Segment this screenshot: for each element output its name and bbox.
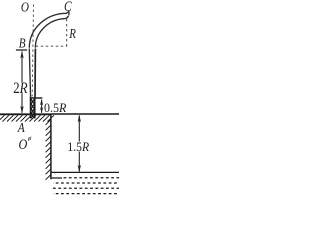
wire: dashed horizontal radius construction line	[36, 45, 67, 47]
table edge hatching	[46, 120, 51, 180]
dimension arrow 0.5R head down	[40, 107, 43, 113]
tube left (outer) wall: straight part	[29, 49, 30, 99]
dimension arrow 2R (shaft)	[21, 52, 23, 113]
svg-text:B: B	[19, 35, 26, 50]
ground / table top line	[0, 113, 52, 115]
dimension arrow 1.5R (shaft)	[78, 116, 80, 172]
svg-text:O: O	[21, 0, 29, 15]
svg-text:1.5R: 1.5R	[67, 140, 89, 154]
ground hatching	[0, 115, 54, 121]
water dashes row 2	[53, 182, 119, 184]
svg-text:2R: 2R	[13, 80, 28, 97]
water surface line	[51, 171, 119, 173]
tank inner ledge / first water row solid part	[51, 177, 62, 179]
label 1.5R	[67, 140, 89, 154]
plug crosshatch	[31, 99, 34, 118]
dimension arrow 1.5R head up	[78, 115, 81, 123]
dimension arrow 1.5R head down	[78, 165, 81, 173]
svg-text:C: C	[64, 0, 72, 15]
svg-text:A: A	[17, 120, 25, 135]
wire: dashed vertical radius construction line	[66, 19, 68, 46]
tube right (inner) wall: straight part	[34, 49, 36, 99]
tube bend inner wall arc	[35, 16, 68, 48]
water dashes row 4	[53, 193, 119, 195]
node B level tick	[16, 49, 27, 51]
svg-text:0.5R: 0.5R	[44, 101, 67, 115]
label 2R	[13, 80, 28, 97]
plug (hatched piston) left wall	[30, 98, 32, 118]
dimension arrow 0.5R (shaft)	[41, 100, 43, 113]
plug top tick	[30, 97, 43, 99]
plug right wall	[34, 98, 36, 118]
dimension extension line (table top level, to right edge)	[52, 113, 120, 115]
O' prime mark	[28, 137, 31, 140]
tube end cap at C	[68, 11, 70, 15]
water dashes row 3	[53, 187, 119, 189]
svg-text:O: O	[19, 136, 28, 153]
tube bend outer wall arc	[29, 11, 69, 47]
dimension arrow 2R head down	[20, 106, 23, 114]
table right edge vertical line	[50, 114, 52, 179]
svg-text:R: R	[68, 26, 76, 41]
water dashes row 1	[64, 177, 120, 179]
dimension arrow 0.5R head up	[40, 99, 43, 105]
dimension arrow 2R head up	[20, 51, 23, 59]
wire: dashed centerline axis of vertical tube	[32, 5, 33, 97]
